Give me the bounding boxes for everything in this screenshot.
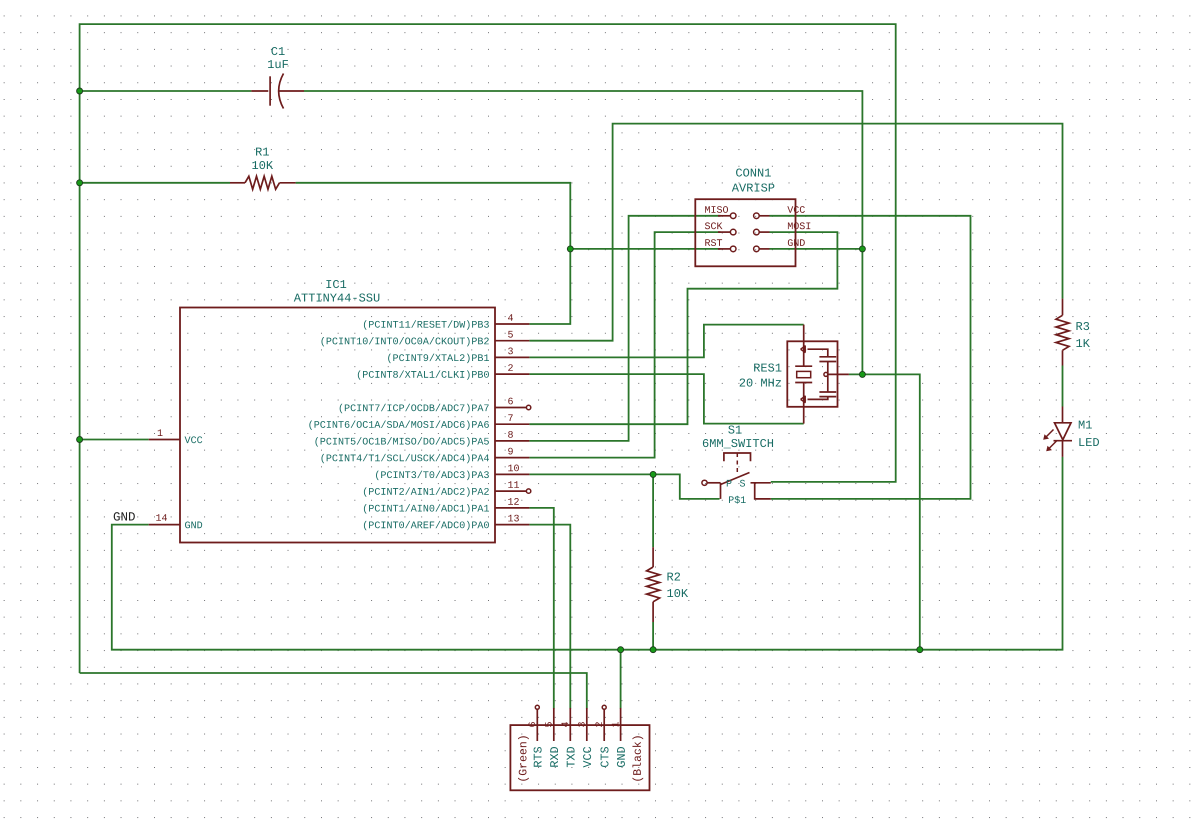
label S1 (728, 425, 741, 433)
net label GND (114, 512, 135, 520)
junction (862.4,248.9) (859, 246, 865, 252)
wire PA0 to FTDI TXD (529, 525, 570, 709)
junction (570.3,248.9) (567, 246, 573, 252)
wire RST row (570, 248, 720, 250)
value 1uF (268, 60, 288, 68)
wire GND rail: IC pin14 down and right to LED (112, 457, 1063, 650)
wire PB1 to resonator pin 1 (529, 325, 803, 358)
wire R3 to LED (1062, 366, 1064, 407)
connector FTDI header box (510, 725, 649, 790)
pin 6 PA7 (340, 398, 531, 414)
wire VCC net: left rail, top run, down to switch S (80, 24, 896, 673)
capacitor C1 (251, 74, 304, 109)
CONN1 pin RST (705, 239, 736, 251)
label IC1 (326, 280, 346, 288)
pin 3 PB1 (388, 348, 529, 364)
label R3 (1076, 322, 1089, 330)
label M1 (1079, 421, 1092, 429)
resistor R3 (1056, 299, 1069, 366)
junction (919.8,649.7) (917, 647, 923, 653)
connector CONN1 AVRISP box (695, 199, 795, 266)
resistor R2 (647, 547, 660, 622)
value 1K (1076, 339, 1090, 347)
pin name P$1 (729, 496, 746, 504)
junction (862.4,374.4) (859, 371, 865, 377)
switch S1 6MM_SWITCH (702, 453, 771, 499)
wire R1 left (80, 182, 230, 184)
wire PA5 to MISO (529, 216, 720, 441)
pin name S (740, 480, 745, 487)
FTDI pin 2 CTS (595, 705, 608, 767)
wire IC1 VCC pin 1 (80, 439, 149, 441)
wire C1 left (80, 90, 252, 92)
junction (79.6,182.8) (77, 180, 83, 186)
CONN1 pin MOSI (754, 222, 811, 234)
CONN1 pin MISO (705, 206, 736, 218)
CONN1 pin VCC (754, 206, 805, 218)
junction (653.1,649.7) (650, 647, 656, 653)
pin 9 PA4 (321, 448, 529, 464)
wire PA4 to SCK (529, 232, 720, 458)
wire R2 top (652, 474, 654, 547)
label CONN1 (736, 168, 771, 176)
label C1 (271, 47, 284, 55)
FTDI pin 3 VCC (578, 708, 591, 768)
value 20 MHz (740, 378, 781, 386)
resonator RES1 20 MHz (787, 325, 849, 424)
wire GND rail to FTDI GND (620, 650, 622, 709)
wire PA3 to switch P (529, 474, 719, 499)
pin 14 GND (149, 514, 202, 528)
pin name P (727, 480, 732, 487)
junction (620.6,649.7) (618, 647, 624, 653)
junction (79.6,91) (77, 88, 83, 94)
junction (79.6,439.5) (77, 437, 83, 443)
IC IC1 ATTINY44-SSU box (180, 308, 495, 543)
wire VCC bottom run to FTDI VCC pin (80, 673, 587, 709)
resistor R1 (230, 176, 296, 189)
label RES1 (754, 363, 781, 371)
FTDI pin 5 RXD (545, 708, 558, 767)
value AVRISP (732, 183, 775, 191)
pin 10 PA3 (376, 465, 529, 481)
wire CONN1 VCC to switch bottom stub (770, 216, 971, 499)
pin 4 PB3 (364, 314, 529, 329)
wire PA1 to FTDI RXD (529, 508, 553, 709)
pin 12 PA1 (364, 498, 529, 514)
value LED (1079, 438, 1099, 446)
pin 5 PB2 (321, 331, 529, 346)
pin 13 PA0 (364, 515, 529, 531)
FTDI pin 1 GND (612, 708, 625, 767)
wire R2 bottom (652, 622, 654, 650)
CONN1 pin SCK (705, 222, 736, 234)
wire CONN1 GND row (770, 248, 863, 250)
wire PB2 to R3 top run (529, 124, 1062, 341)
wire resonator centre pin to GND rail (849, 374, 920, 649)
pin 11 PA2 (364, 481, 531, 496)
pin 7 PA6 (309, 414, 529, 429)
CONN1 pin GND (754, 239, 805, 251)
label R1 (256, 148, 269, 156)
FTDI pin 4 TXD (562, 708, 575, 767)
junction (653.1,474.4) (650, 471, 656, 477)
pin 1 VCC (149, 429, 203, 443)
value 6MM_SWITCH (703, 439, 773, 448)
wire C1 right / GND vertical to resonator (304, 91, 862, 374)
value 10K (667, 589, 688, 597)
pin 8 PA5 (315, 431, 529, 447)
LED M1 (1043, 407, 1072, 457)
label R2 (667, 572, 680, 580)
value 10K (252, 161, 273, 169)
value ATTINY44-SSU (294, 293, 380, 301)
FTDI pin 6 RTS (528, 705, 541, 766)
wire R1 right down to RST and PB3 (296, 183, 571, 324)
label (Green) (518, 736, 529, 780)
label (Black) (632, 736, 643, 780)
wire PA6 to MOSI (529, 232, 837, 424)
wire PB0 to resonator pin 3 (529, 374, 803, 424)
pin 2 PB0 (358, 364, 530, 380)
